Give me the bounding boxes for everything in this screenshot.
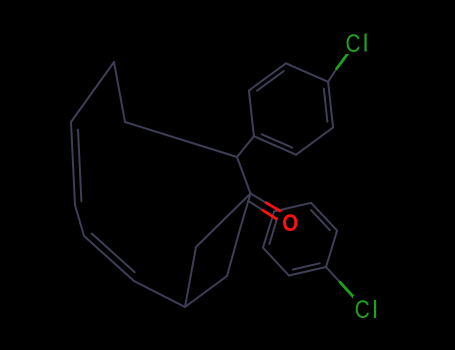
benzene bottom edge 2 — [263, 211, 274, 247]
wire ring edge P5-P6 — [84, 236, 134, 281]
wire ring edge P4-P5 — [75, 205, 84, 236]
benzene top edge 3 — [249, 91, 254, 137]
benzene bottom double inner 2 — [269, 218, 277, 244]
bond ring to Cl top green half — [337, 53, 348, 68]
svg-text:C: C — [355, 296, 370, 324]
svg-text:C: C — [346, 30, 361, 58]
bond C1=O second red half — [263, 210, 276, 219]
wire double inner P3-P4 — [78, 130, 81, 201]
benzene bottom edge 4 — [311, 203, 337, 231]
wire ring edge X1-apex — [114, 62, 125, 122]
benzene bottom edge 1 — [263, 248, 289, 276]
benzene bottom edge 5 — [326, 231, 337, 267]
benzene top double inner 0 — [324, 89, 328, 122]
wire ring chord P9-P7 — [185, 247, 196, 307]
wire ring edge CH-X1 long — [125, 122, 237, 157]
benzene top edge 2 — [254, 136, 296, 155]
svg-text:O: O — [282, 210, 298, 237]
bond CH to top phenyl — [237, 136, 254, 157]
halo Cl top — [344, 30, 372, 54]
benzene bottom double inner 4 — [311, 210, 330, 230]
wire double inner P5-P6 — [92, 234, 135, 273]
benzene top edge 0 — [328, 82, 333, 128]
bond ring to Cl top dark half — [328, 69, 337, 82]
wire ring edge C1-CH — [237, 157, 251, 194]
svg-text:l: l — [363, 30, 369, 58]
benzene top edge 4 — [249, 63, 286, 90]
benzene bottom edge 3 — [274, 203, 311, 212]
wire ring edge P8-PA — [227, 229, 240, 276]
bond C1=O second dark half — [249, 202, 262, 211]
wire ring edge P3-P4 — [71, 122, 75, 205]
benzene bottom double inner 0 — [293, 263, 320, 269]
bond C1=O main red half — [266, 203, 282, 212]
wire ring edge apex-P3 — [71, 62, 114, 122]
benzene top double inner 4 — [257, 71, 284, 91]
svg-text:l: l — [372, 296, 378, 324]
wire ring chord C1-P9 — [196, 194, 251, 248]
wire ring edge P7-P8 — [185, 276, 227, 307]
wire ring edge P6-P7 — [134, 281, 185, 307]
benzene top edge 1 — [296, 128, 333, 155]
halo O — [281, 212, 302, 235]
wire ring edge PA-C1 — [240, 194, 251, 230]
bond ring to Cl bottom green half — [340, 282, 354, 297]
benzene top double inner 2 — [262, 134, 292, 147]
benzene top edge 5 — [286, 63, 328, 82]
bond ring to Cl bottom dark half — [326, 267, 340, 282]
benzene bottom edge 0 — [289, 267, 326, 276]
halo Cl bottom — [353, 296, 381, 320]
bond C1=O main dark half — [251, 194, 267, 203]
